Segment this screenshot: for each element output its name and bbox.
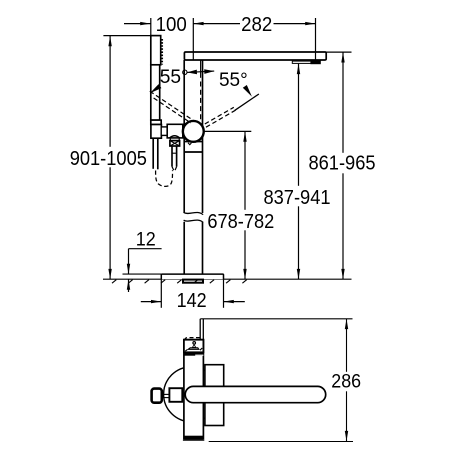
svg-text:142: 142 [177,289,207,312]
svg-text:901-1005: 901-1005 [70,147,147,170]
svg-text:286: 286 [331,371,361,393]
svg-text:55°: 55° [160,66,189,88]
svg-text:100: 100 [156,13,187,36]
svg-text:837-941: 837-941 [263,186,330,209]
svg-text:678-782: 678-782 [207,210,274,233]
svg-text:55°: 55° [219,69,248,91]
svg-text:282: 282 [241,13,272,36]
svg-text:12: 12 [136,228,156,250]
svg-text:861-965: 861-965 [308,152,375,175]
